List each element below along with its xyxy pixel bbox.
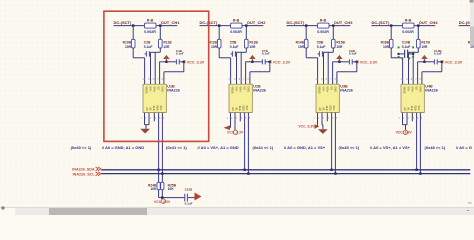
resistor R24B 10K pull-up — [157, 182, 160, 190]
power circle VCC_3.3V bottom — [161, 198, 163, 199]
svg-text:VIN+: VIN+ — [326, 86, 330, 92]
op-amp/IC U3B INA226 block 3 — [316, 84, 339, 112]
svg-text:ALE: ALE — [152, 106, 156, 111]
svg-text:DC-(SCT): DC-(SCT) — [372, 20, 390, 25]
resistor R13B 10R block 2 — [245, 39, 249, 48]
svg-text:0.1uF: 0.1uF — [402, 45, 411, 49]
junction right node block 3 — [332, 24, 334, 26]
svg-text:SCL: SCL — [159, 106, 163, 112]
svg-text:10R: 10R — [163, 45, 170, 49]
wire cap to label block 3 — [353, 61, 357, 63]
svg-text:A1: A1 — [149, 107, 153, 111]
svg-text:R-B: R-B — [147, 19, 154, 23]
wire top horizontal block 3 — [287, 25, 351, 27]
wire A0 to VCC block 3 — [317, 113, 319, 127]
wire VS to pin block 3 — [332, 61, 339, 63]
op-amp/IC U4B INA226 block 4 — [401, 84, 424, 112]
capacitor C8B 0.1uF filter block 3 — [318, 51, 320, 56]
svg-text:SDA: SDA — [242, 105, 246, 111]
svg-text:// A0 = G: // A0 = G — [456, 145, 472, 150]
junction left node block 1 — [132, 24, 134, 26]
resistor R-B shunt 0.002R block 4 — [403, 23, 415, 28]
wire VS to cap block 3 — [339, 61, 349, 63]
svg-text:10K: 10K — [168, 187, 175, 191]
svg-text:ALE: ALE — [410, 106, 414, 111]
junction cap right block 2 — [269, 61, 271, 63]
wire VBUS pin stub block 3 — [327, 52, 329, 84]
junction right node block 4 — [417, 24, 419, 26]
pin stub ALERT block 1 — [153, 113, 155, 122]
pin stub ALERT block 4 — [411, 113, 413, 122]
capacitor C9B 0.1uF decoupling block 3 — [348, 59, 350, 64]
svg-text:0.1uF: 0.1uF — [349, 52, 357, 56]
wire SDA bus line — [101, 169, 470, 171]
wire top horizontal block 1 — [114, 25, 178, 27]
wire cap to power arrow — [188, 197, 195, 199]
wire VS to pin block 4 — [417, 61, 424, 63]
capacitor C2B 0.1uF filter block 1 — [145, 51, 147, 56]
wire A1 stub block 2 — [234, 113, 236, 130]
net label VCC_3.3V top block 4 — [442, 60, 444, 63]
wire cap to label block 1 — [180, 61, 184, 63]
svg-text:(0x40 << 1): (0x40 << 1) — [71, 145, 92, 150]
svg-text:VS: VS — [157, 86, 161, 90]
wire left branch vertical block 4 — [390, 26, 392, 40]
junction left node block 2 — [218, 24, 220, 26]
svg-text:OUT_CH1: OUT_CH1 — [161, 20, 180, 25]
junction right node block 1 — [159, 24, 161, 26]
svg-text:0.002R: 0.002R — [144, 30, 156, 34]
wire top block 5 — [459, 25, 474, 27]
svg-text:OUT_CH3: OUT_CH3 — [334, 20, 353, 25]
svg-text:GND: GND — [419, 86, 423, 92]
svg-text:DC-(SCT): DC-(SCT) — [114, 20, 132, 25]
wire SDA down block 4 — [416, 113, 418, 170]
junction cap right block 1 — [183, 61, 185, 63]
resistor R16B 10R block 4 — [389, 39, 393, 48]
capacitor C4B 0.1uF decoupling block 1 — [175, 59, 177, 64]
svg-text:R-B: R-B — [233, 19, 240, 23]
wire SCL bus line — [101, 173, 470, 175]
junction VS node block 3 — [338, 61, 340, 63]
wire left branch vertical block 3 — [305, 26, 307, 40]
svg-text:10R: 10R — [336, 45, 343, 49]
svg-text:INA226: INA226 — [167, 88, 180, 92]
svg-text:SDA: SDA — [329, 105, 333, 111]
junction cap right block 3 — [356, 61, 358, 63]
junction SDA bus block 2 — [243, 169, 245, 171]
wire VS to pin block 1 — [159, 61, 166, 63]
svg-text:VCC_3.3V: VCC_3.3V — [227, 131, 244, 135]
svg-text:0.1uF: 0.1uF — [185, 201, 193, 205]
wire top horizontal block 4 — [372, 25, 436, 27]
capacitor C7B 0.1uF decoupling block 2 — [261, 59, 263, 64]
wire SDA down block 3 — [331, 113, 333, 170]
resistor R25B 10K pull-up — [161, 182, 164, 190]
svg-text:DC-(SCT): DC-(SCT) — [287, 20, 305, 25]
svg-text:A1: A1 — [407, 107, 411, 111]
power port VCC_3.3V left arrow block 2 — [224, 125, 231, 130]
scroll area right top — [470, 0, 474, 3]
svg-text:SCL: SCL — [332, 106, 336, 112]
wire SCL down block 1 — [161, 113, 163, 183]
pin stub ALERT block 3 — [326, 113, 328, 122]
svg-text:(0x44 << 1): (0x44 << 1) — [253, 145, 274, 150]
svg-text:0.1uF: 0.1uF — [144, 45, 153, 49]
svg-text:VIN+: VIN+ — [153, 86, 157, 92]
wire GND return block 2 — [269, 62, 271, 72]
wire left branch lower block 3 — [305, 48, 307, 58]
svg-text:// A0 = GND, A1 = GND: // A0 = GND, A1 = GND — [102, 145, 144, 150]
svg-text:ALE: ALE — [238, 106, 242, 111]
svg-text:(0x41 << 1): (0x41 << 1) — [166, 145, 187, 150]
corner marks bottom right — [468, 202, 472, 205]
svg-text:C12B: C12B — [185, 188, 194, 192]
corner mark bottom left — [1, 208, 5, 209]
svg-text:VCC_3.3V: VCC_3.3V — [445, 60, 463, 64]
svg-text:GND: GND — [334, 86, 338, 92]
wire SCL down block 4 — [419, 113, 421, 174]
svg-text:SDA: SDA — [156, 105, 160, 111]
wire right branch vertical block 4 — [417, 26, 419, 40]
svg-text:A0: A0 — [231, 107, 235, 111]
svg-text:VBUS: VBUS — [231, 86, 235, 93]
svg-text:VS: VS — [415, 86, 419, 90]
svg-text:10R: 10R — [421, 45, 428, 49]
svg-text:10R: 10R — [125, 45, 132, 49]
capacitor C12B 0.1uF bypass — [184, 194, 186, 202]
svg-text:OUT_CH2: OUT_CH2 — [247, 20, 266, 25]
wire A0 A1 to ground block 1 — [144, 113, 146, 125]
wire VS to pin block 2 — [245, 61, 252, 63]
power port VCC_3.3V right arrow block 3 — [315, 124, 320, 129]
wire VBUS pin stub block 4 — [412, 52, 414, 84]
wire right branch lower block 1 — [159, 48, 161, 52]
resistor R10B 10R block 1 — [131, 39, 135, 48]
svg-text:0.1uF: 0.1uF — [230, 45, 239, 49]
svg-text:VIN+: VIN+ — [411, 86, 415, 92]
wire SCL down block 3 — [334, 113, 336, 174]
svg-text:VIN-: VIN- — [149, 86, 153, 91]
svg-text:GND: GND — [247, 86, 251, 92]
power port VCC_3.3V arrow block 1 — [165, 59, 167, 62]
junction cap right block 4 — [441, 61, 443, 63]
wire pull-ups to VCC — [158, 190, 160, 198]
svg-text:GND: GND — [161, 86, 165, 92]
resistor R15B 10R block 3 — [332, 39, 336, 48]
svg-text:R-B: R-B — [405, 19, 412, 23]
svg-text:0.002R: 0.002R — [317, 30, 329, 34]
wire GND return block 4 — [441, 62, 443, 72]
wire cap to label block 2 — [266, 61, 270, 63]
wire A0 to VCC block 2 — [230, 113, 232, 128]
wire right branch lower block 2 — [245, 48, 247, 52]
wire SDA down block 2 — [244, 113, 246, 170]
junction SCL bus block 1 — [161, 172, 163, 174]
wire VBUS pin stub block 1 — [154, 52, 156, 84]
resistor R-B shunt 0.002R block 1 — [145, 23, 157, 28]
svg-text:SCL: SCL — [245, 106, 249, 112]
svg-text:VCC_3.3V: VCC_3.3V — [360, 60, 378, 64]
wire right branch vertical block 1 — [159, 26, 161, 40]
svg-text:INA226_SCL: INA226_SCL — [73, 172, 96, 176]
svg-text:INA226_SDA: INA226_SDA — [72, 167, 95, 171]
wire cap to label block 4 — [438, 61, 442, 63]
wire left branch vertical block 2 — [218, 26, 220, 40]
power port VCC_3.3V arrow block 2 — [251, 59, 253, 62]
svg-text:VS: VS — [330, 86, 334, 90]
svg-text:// A0 = VS+, A1 = GND: // A0 = VS+, A1 = GND — [198, 145, 239, 150]
svg-text:// A0 = GND, A1 = VS+: // A0 = GND, A1 = VS+ — [284, 145, 326, 150]
svg-text:INA226: INA226 — [340, 88, 353, 92]
wire SDA down block 1 — [158, 113, 160, 183]
svg-text:VCC_3.3V: VCC_3.3V — [298, 125, 315, 129]
svg-text:A1: A1 — [235, 107, 239, 111]
resistor R17B 10R block 4 — [417, 39, 421, 48]
svg-text:A0: A0 — [318, 107, 322, 111]
bottom scrollbar thumb — [49, 208, 147, 215]
junction right node block 2 — [245, 24, 247, 26]
svg-text:0.1uF: 0.1uF — [434, 52, 442, 56]
svg-text:// A0 = VS+, A1 = VS+: // A0 = VS+, A1 = VS+ — [370, 145, 411, 150]
bottom scrollbar track — [0, 207, 474, 208]
junction VS node block 1 — [165, 61, 167, 63]
svg-text:A0: A0 — [403, 107, 407, 111]
wire right branch vertical block 2 — [245, 26, 247, 40]
svg-text:INA226: INA226 — [253, 88, 266, 92]
svg-text:VBUS: VBUS — [403, 86, 407, 93]
junction VS node block 4 — [423, 61, 425, 63]
svg-text:VS: VS — [243, 86, 247, 90]
junction SCL bus block 3 — [334, 172, 336, 174]
capacitor C13B 0.1uF decoupling block 4 — [433, 59, 435, 64]
svg-text:INA226: INA226 — [425, 88, 438, 92]
wire VS to cap block 1 — [166, 61, 176, 63]
wire A0 A1 join block 4 — [402, 113, 404, 125]
selection handles green block 4 — [398, 46, 400, 48]
junction pull-up VCC — [161, 196, 163, 198]
svg-text:SCL: SCL — [417, 106, 421, 112]
svg-text:R-B: R-B — [320, 19, 327, 23]
no-connect circle block 2 — [233, 130, 237, 134]
svg-text:0.002R: 0.002R — [230, 30, 242, 34]
wire left branch lower block 1 — [132, 48, 134, 58]
power port VCC_3.3V arrow block 4 — [423, 59, 425, 62]
svg-text:10R: 10R — [249, 45, 256, 49]
junction SDA bus block 4 — [415, 169, 417, 171]
svg-text:A1: A1 — [322, 107, 326, 111]
wire GND return block 3 — [356, 62, 358, 72]
wire VBUS pin stub block 2 — [240, 52, 242, 84]
junction SCL bus block 2 — [247, 172, 249, 174]
capacitor C5B 0.1uF filter block 2 — [231, 51, 233, 56]
svg-text:OUT_CH4: OUT_CH4 — [419, 20, 438, 25]
junction SDA bus block 3 — [330, 169, 332, 171]
capacitor C10B 0.1uF filter block 4 — [404, 50, 406, 58]
op-amp/IC U2B INA226 block 2 — [229, 84, 252, 112]
wire A1 to ground block 3 — [321, 113, 323, 125]
svg-text:0.1uF: 0.1uF — [317, 45, 326, 49]
ground symbol block 3 — [318, 129, 328, 134]
svg-text:A0: A0 — [145, 107, 149, 111]
pin stub ALERT block 2 — [239, 113, 241, 122]
svg-text:VCC_3.3V: VCC_3.3V — [273, 60, 291, 64]
svg-text:10R: 10R — [211, 45, 218, 49]
svg-text:(0x48 << 1): (0x48 << 1) — [425, 145, 446, 150]
junction left node block 3 — [305, 24, 307, 26]
junction left node block 4 — [390, 24, 392, 26]
red highlight rectangle around block 1 — [104, 11, 209, 141]
wire right branch vertical block 3 — [332, 26, 334, 40]
power circle block 4 — [403, 130, 407, 134]
svg-text:10R: 10R — [383, 45, 390, 49]
resistor R11B 10R block 1 — [159, 39, 163, 48]
junction SCL bus block 4 — [419, 172, 421, 174]
resistor R14B 10R block 3 — [304, 39, 308, 48]
net label VCC_3.3V top block 3 — [357, 60, 359, 63]
power port VCC_3.3V arrow block 3 — [338, 59, 340, 62]
wire left branch lower block 4 — [390, 48, 392, 58]
power port arrow right VCC — [195, 193, 202, 201]
wire SCL down block 2 — [247, 113, 249, 174]
net label VCC_3.3V top block 1 — [184, 60, 186, 63]
resistor R12B 10R block 2 — [217, 39, 221, 48]
op-amp/IC U1B INA226 block 1 — [143, 84, 166, 112]
wire VS to cap block 4 — [424, 61, 434, 63]
ground symbol block 1 — [140, 129, 150, 134]
svg-text:0.1uF: 0.1uF — [262, 52, 270, 56]
svg-text:VCC_3.3V: VCC_3.3V — [154, 200, 171, 204]
svg-text:VIN-: VIN- — [322, 86, 326, 91]
svg-text:VIN-: VIN- — [235, 86, 239, 91]
svg-text:SDA: SDA — [414, 105, 418, 111]
svg-text:10R: 10R — [298, 45, 305, 49]
svg-text:0.002R: 0.002R — [402, 30, 414, 34]
wire top horizontal block 2 — [200, 25, 264, 27]
wire VS to cap block 2 — [252, 61, 262, 63]
junction VS node block 2 — [251, 61, 253, 63]
svg-text:VIN+: VIN+ — [239, 86, 243, 92]
svg-text:VBUS: VBUS — [145, 86, 149, 93]
wire left branch vertical block 1 — [132, 26, 134, 40]
wire right branch lower block 4 — [417, 48, 419, 52]
svg-text:VCC_3.3V: VCC_3.3V — [187, 60, 205, 64]
wire GND return block 1 — [183, 62, 185, 72]
wire left branch lower block 2 — [218, 48, 220, 58]
svg-text:(0x45 << 1): (0x45 << 1) — [339, 145, 360, 150]
svg-text:10K: 10K — [150, 187, 157, 191]
svg-text:ALE: ALE — [325, 106, 329, 111]
resistor R-B shunt 0.002R block 2 — [231, 23, 243, 28]
net label VCC_3.3V top block 2 — [270, 60, 272, 63]
junction SDA bus block 1 — [157, 169, 159, 171]
svg-text:0.1uF: 0.1uF — [176, 52, 184, 56]
svg-text:VCC_3.3V: VCC_3.3V — [396, 131, 413, 135]
svg-text:VBUS: VBUS — [318, 86, 322, 93]
svg-text:VIN-: VIN- — [407, 86, 411, 91]
resistor R-B shunt 0.002R block 3 — [318, 23, 330, 28]
wire right branch lower block 3 — [332, 48, 334, 52]
